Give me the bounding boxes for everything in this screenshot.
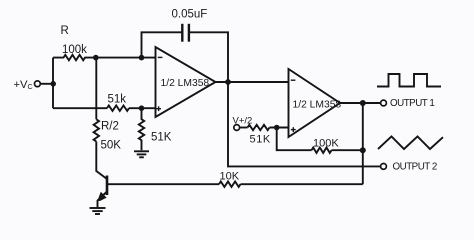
svg-text:50K: 50K <box>101 140 122 152</box>
svg-text:V+/2: V+/2 <box>233 116 253 127</box>
transistor emitter <box>98 192 108 208</box>
terminal OUTPUT 2 <box>381 164 387 170</box>
capacitor C1 0.05uF <box>181 24 183 42</box>
resistor 51k horizontal <box>107 106 129 111</box>
waveform triangle <box>378 136 443 149</box>
svg-text:100K: 100K <box>313 137 339 149</box>
node feedback junction <box>360 147 366 153</box>
node op2 output <box>360 100 366 106</box>
node Vc junction <box>50 81 56 87</box>
node op1 output <box>225 79 231 85</box>
svg-text:1/2 LM358: 1/2 LM358 <box>161 78 210 89</box>
wire bottom feedback to base <box>241 183 363 185</box>
transistor Q1 bar <box>106 176 109 196</box>
wire left rail vertical <box>52 58 54 109</box>
node cap tap <box>139 55 145 61</box>
wire base lead <box>107 183 219 185</box>
ground under 51K <box>134 150 149 152</box>
svg-text:+VC: +VC <box>14 79 33 91</box>
wire V+/2 lead <box>240 127 248 129</box>
label U1 minus <box>158 56 163 58</box>
wire op2 output <box>340 102 381 104</box>
svg-text:51K: 51K <box>151 132 172 144</box>
wire R/2 top lead <box>95 58 97 120</box>
svg-text:10K: 10K <box>220 170 240 182</box>
wire to plus input <box>129 107 156 109</box>
wire lower line Vc to op-amp plus <box>53 107 107 109</box>
wire triangle output drop <box>228 82 381 166</box>
resistor 10K base <box>219 182 241 187</box>
svg-text:1/2 LM358: 1/2 LM358 <box>293 100 342 111</box>
wire to comparator plus <box>270 127 289 129</box>
resistor R/2 50K <box>94 119 99 141</box>
svg-text:51k: 51k <box>108 94 127 106</box>
terminal +Vc <box>35 81 41 87</box>
svg-text:R/2: R/2 <box>101 121 119 133</box>
resistor R1 100k <box>53 55 96 60</box>
svg-text:0.05uF: 0.05uF <box>172 9 208 21</box>
wire 100K to output leg <box>332 149 363 151</box>
wire Vc to rail <box>40 83 53 85</box>
terminal OUTPUT 1 <box>381 100 387 106</box>
transistor emitter arrow <box>97 192 106 201</box>
wire top line to op-amp minus <box>96 57 156 59</box>
wire R/2 to transistor collector <box>96 142 107 180</box>
node plus divider <box>139 105 145 111</box>
terminal V+/2 <box>234 125 240 131</box>
svg-text:OUTPUT 1: OUTPUT 1 <box>390 98 434 109</box>
svg-text:R: R <box>61 25 69 37</box>
wire op1 output <box>216 81 289 83</box>
svg-text:100k: 100k <box>62 44 87 56</box>
node hysteresis tap <box>274 125 280 131</box>
svg-text:OUTPUT 2: OUTPUT 2 <box>393 162 437 173</box>
wire hysteresis down <box>277 128 312 151</box>
op-amp U2 triangle <box>289 69 341 137</box>
wire cap left leg <box>142 32 182 57</box>
resistor 51K comparator <box>248 125 270 130</box>
resistor 51K vertical <box>139 108 144 150</box>
label U2 minus <box>291 79 296 81</box>
resistor 100K feedback <box>312 148 332 153</box>
svg-text:51K: 51K <box>250 134 271 146</box>
waveform square <box>377 74 441 87</box>
wire output down leg <box>362 103 364 184</box>
node after 100k <box>93 55 99 61</box>
label U1 plus <box>156 108 161 110</box>
ground under emitter <box>90 207 106 209</box>
wire cap right leg <box>190 32 228 82</box>
op-amp U1 triangle <box>156 47 216 117</box>
label U2 plus <box>291 129 296 131</box>
